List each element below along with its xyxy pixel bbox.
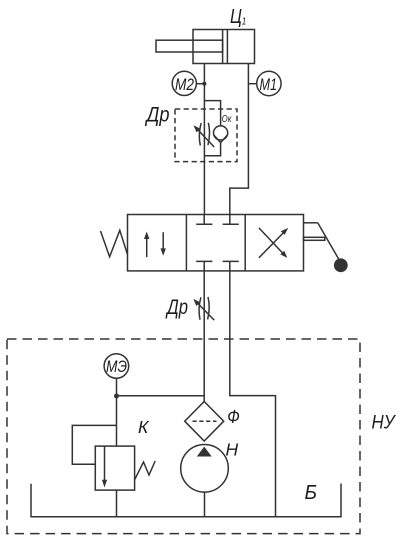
svg-text:Ц: Ц: [230, 6, 242, 28]
relief valve K internal arrow: [104, 446, 106, 483]
label K: [138, 417, 150, 437]
wire valve K outlet: [116, 490, 118, 517]
gauge ME: [104, 354, 129, 379]
dashed enclosure throttle-check unit: [175, 109, 237, 162]
valve V1 center position blocked ports bottom: [203, 261, 205, 271]
wire right pipe from cylinder: [230, 64, 249, 215]
throttle DR1 adjust arrow: [195, 126, 215, 147]
valve V1 right position cross arrow 1: [259, 231, 286, 258]
throttle DR2 adjust arrow: [194, 300, 214, 320]
svg-text:МЭ: МЭ: [106, 357, 127, 376]
dashed enclosure NU pump unit: [7, 339, 360, 534]
pump N triangle: [197, 447, 212, 457]
svg-text:К: К: [138, 417, 150, 437]
valve V1 outer boxes: [128, 215, 304, 271]
valve V1 lever bracket: [304, 237, 325, 240]
svg-text:1: 1: [242, 16, 247, 28]
valve V1 left position up arrow: [146, 235, 148, 257]
junction dot ME: [114, 394, 119, 399]
wire bypass lower: [204, 142, 220, 155]
svg-text:Б: Б: [305, 482, 318, 504]
label F: [227, 407, 240, 427]
svg-text:Др: Др: [145, 104, 170, 127]
filter F element dashes: [193, 420, 217, 422]
wire pump outlet to tank: [204, 492, 206, 517]
check valve Ok ball: [214, 126, 228, 140]
svg-text:Н: Н: [226, 440, 239, 460]
wire M2 connector: [196, 83, 204, 85]
valve V1 spring: [101, 230, 128, 256]
label N: [226, 440, 239, 460]
filter F diamond: [185, 402, 224, 442]
wire ME branch down to valve K: [116, 396, 118, 446]
svg-text:Ок: Ок: [222, 114, 232, 125]
wire M1 connector: [248, 83, 256, 85]
tank B: [31, 484, 341, 517]
valve V1 center position blocked ports top: [203, 215, 205, 225]
wire ME stem: [116, 378, 118, 396]
svg-text:М2: М2: [175, 75, 194, 94]
cylinder C1 body: [193, 30, 255, 64]
pump N circle: [181, 445, 229, 493]
gauge M1: [257, 71, 281, 95]
relief valve K spring: [135, 461, 156, 480]
relief valve K body: [95, 446, 134, 490]
wire pipe valve to filter: [203, 271, 205, 402]
wire bypass upper: [204, 101, 220, 126]
check valve Ok seat: [214, 135, 228, 143]
label Dr lower: [165, 296, 188, 319]
throttle DR1 arcs: [199, 123, 201, 145]
valve V1 lever arm: [304, 222, 318, 224]
svg-text:Ф: Ф: [227, 407, 240, 427]
label NU: [372, 413, 397, 434]
wire ME branch horizontal: [117, 395, 205, 397]
label Ok: [222, 114, 232, 125]
wire return pipe to tank: [230, 271, 276, 517]
wire left pipe from cylinder to valve: [203, 64, 205, 215]
valve V1 right position cross arrow 2: [259, 228, 285, 255]
cylinder C1 rod: [156, 40, 223, 52]
relief valve K pilot line: [72, 425, 116, 464]
cylinder C1 piston: [222, 30, 224, 64]
svg-text:Др: Др: [165, 296, 188, 319]
throttle DR2 arcs: [199, 297, 201, 319]
label B: [305, 482, 318, 504]
valve V1 lever knob: [334, 258, 348, 272]
svg-text:НУ: НУ: [372, 413, 397, 434]
label C1: [230, 6, 246, 28]
svg-text:М1: М1: [260, 75, 278, 94]
valve V1 left position down arrow: [162, 232, 164, 252]
junction dot M2 line: [202, 82, 206, 86]
label Dr upper: [145, 104, 170, 127]
gauge M2: [172, 71, 196, 95]
